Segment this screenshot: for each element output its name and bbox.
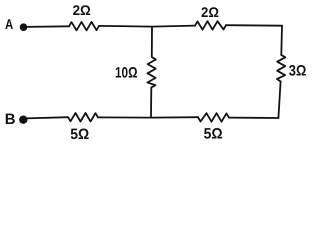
svg-text:2Ω: 2Ω — [201, 4, 219, 20]
svg-text:5Ω: 5Ω — [204, 126, 223, 143]
wire: 5ohm bottom-left to terminal B — [26, 117, 68, 118]
wire: top middle, through top node — [99, 26, 195, 27]
resistor 2ohm top-left — [69, 22, 99, 31]
terminal A dot — [20, 23, 28, 31]
svg-text:5Ω: 5Ω — [70, 126, 89, 143]
wire right vertical upper — [280, 26, 283, 55]
terminal B dot — [19, 116, 27, 124]
resistor 5ohm bottom-right — [198, 113, 229, 122]
wire middle vertical upper — [151, 27, 153, 57]
resistor 10ohm middle — [147, 57, 155, 88]
wire: bottom middle, through bottom node — [98, 116, 198, 118]
svg-text:10Ω: 10Ω — [115, 64, 138, 81]
resistor 5ohm bottom-left — [68, 113, 98, 122]
wire middle vertical lower — [150, 88, 152, 118]
svg-text:A: A — [5, 16, 13, 32]
wire right vertical lower — [278, 82, 280, 119]
resistor 3ohm right — [277, 55, 285, 82]
wire: terminal A to 2ohm top-left — [26, 25, 69, 28]
wire: bottom-right corner to 5ohm bottom-right — [229, 117, 278, 119]
svg-text:B: B — [5, 111, 16, 128]
resistor 2ohm top-right — [195, 21, 226, 30]
wire: 2ohm top-right to top-right corner — [226, 24, 282, 27]
svg-text:3Ω: 3Ω — [289, 62, 307, 79]
svg-text:2Ω: 2Ω — [73, 2, 91, 18]
